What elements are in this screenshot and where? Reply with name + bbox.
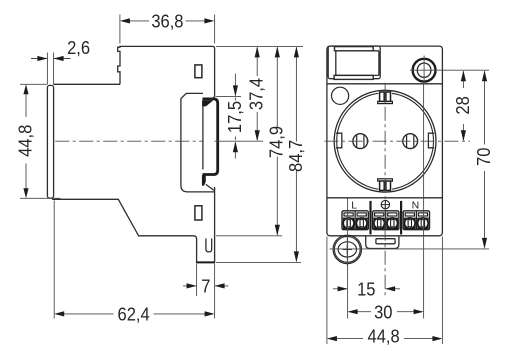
svg-text:84,7: 84,7: [285, 140, 306, 172]
front view: socket inner circle: [337, 93, 434, 190]
front view: horizontal center line: [325, 140, 471, 142]
front view: right pin hole: [403, 134, 418, 149]
svg-text:70: 70: [473, 147, 494, 166]
left view: tab bottom thick edge: [197, 261, 215, 263]
dimension 30: [348, 301, 424, 322]
front view: L extension line: [347, 199, 349, 319]
svg-text:15: 15: [357, 279, 376, 300]
left view: tab release slot: [206, 239, 212, 252]
svg-text:28: 28: [452, 96, 473, 115]
left view: rear wall plate: [47, 85, 53, 198]
front view: partition wall left: [369, 201, 371, 235]
front view: vertical center line: [384, 83, 386, 296]
front view: latch grip bottom bar: [334, 75, 373, 79]
dimension 84,7: [216, 46, 306, 262]
front view: right edge extension: [441, 237, 443, 345]
left view: chamfer to rail channel: [210, 97, 215, 101]
svg-text:36,8: 36,8: [151, 11, 183, 32]
dimension 15: [333, 279, 400, 300]
front view: earth clip top: [378, 92, 393, 104]
dimension 17,5: [215, 74, 264, 159]
left view: center line: [55, 140, 202, 142]
dimension 70: [473, 70, 494, 249]
dimension 62,4: [54, 201, 214, 325]
svg-text:44,8: 44,8: [368, 325, 400, 346]
front view: earth clip bottom: [378, 179, 393, 191]
front view: latch tab outer: [328, 46, 380, 79]
svg-text:37,4: 37,4: [246, 78, 267, 110]
front view: left pin hole: [353, 134, 368, 149]
dimension 36,8: [120, 11, 215, 44]
front view: N extension line: [423, 85, 425, 319]
front view: latch tab inner: [336, 51, 379, 76]
svg-text:74,9: 74,9: [266, 126, 287, 158]
dimension 74,9: [216, 46, 287, 235]
svg-text:30: 30: [374, 301, 393, 322]
front view: screw center extension: [410, 69, 489, 71]
front view: divider line: [327, 83, 443, 85]
left view: lower vent slot: [195, 206, 202, 220]
front view: fixing screw top right: [413, 56, 436, 84]
left view: bottom outline with tab: [52, 187, 215, 262]
front view: small circle upper left: [332, 87, 349, 104]
left view: release latch edge: [181, 93, 215, 191]
front view: left side notch: [336, 133, 342, 148]
front view: foot center extension: [330, 248, 490, 250]
front view: partition wall right: [400, 201, 402, 235]
front view: terminal block earth: [373, 211, 399, 230]
dimension 28: [452, 70, 473, 141]
front view: socket outer circle: [334, 90, 436, 192]
front view: mounting foot screw: [333, 235, 361, 266]
left view: channel inner wall line: [202, 105, 204, 170]
svg-text:44,8: 44,8: [14, 125, 35, 157]
front view: body outline: [327, 46, 443, 236]
svg-text:62,4: 62,4: [118, 304, 150, 325]
front view: right side notch: [428, 133, 434, 148]
svg-text:2,6: 2,6: [67, 37, 90, 58]
dimension 44,8 left: [14, 84, 60, 198]
left view: DIN rail channel: [203, 99, 218, 175]
svg-text:7: 7: [201, 276, 210, 297]
dimension 7: [183, 264, 229, 319]
svg-text:17,5: 17,5: [224, 101, 245, 133]
front view: left edge extension: [326, 237, 328, 345]
svg-text:N: N: [412, 199, 420, 211]
left view: module side outline: [53, 46, 214, 96]
front view: terminal recess line: [327, 197, 443, 199]
dimension 37,4: [216, 46, 303, 141]
front view: terminal block N: [403, 211, 429, 230]
front view: earth symbol: [381, 200, 390, 209]
front view: bottom latch: [366, 236, 399, 249]
left view: bottom rail claw: [202, 175, 206, 186]
left view: upper vent slot: [195, 65, 202, 78]
front view: terminal block L: [342, 211, 368, 230]
svg-text:L: L: [351, 199, 357, 211]
dimension 44,8 bottom: [327, 325, 443, 346]
left view: top rail claw: [202, 100, 213, 106]
front view: latch grip top bar: [335, 47, 374, 51]
left view: release latch fang: [206, 184, 214, 190]
dimension 2,6: [31, 37, 90, 84]
